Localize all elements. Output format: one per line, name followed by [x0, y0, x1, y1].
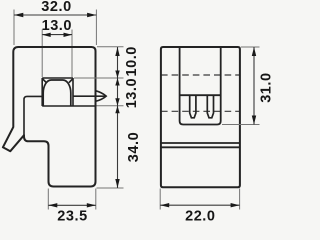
left view: lower body top face [42, 105, 95, 107]
svg-text:31.0: 31.0 [259, 72, 274, 102]
arrow 34.0 down [115, 179, 119, 188]
dimension line 23.5 [48, 204, 96, 206]
left view: extension line 13.0 left [41, 30, 43, 78]
left view: body outline with lever [3, 47, 96, 187]
right view: extension line 22.0 left [159, 189, 161, 210]
dimension line right stack [117, 47, 119, 188]
svg-text:13.0: 13.0 [124, 78, 140, 108]
left view: hinge step line [24, 96, 42, 135]
left view: window left edge [41, 78, 43, 106]
arrow 10.0 down (hourglass at 78) [115, 71, 119, 79]
svg-text:22.0: 22.0 [185, 208, 215, 224]
svg-text:13.0: 13.0 [42, 18, 72, 34]
right view: connector left side [179, 47, 181, 121]
left view: latch beak [96, 91, 107, 102]
right view: connector shelf [180, 94, 221, 96]
dimension line 22.0 [160, 204, 239, 206]
left view: extension line 32.0 right [95, 10, 97, 46]
arrow 23.5 right [87, 203, 96, 207]
right view: connector right side [220, 47, 222, 121]
left view: window right edge [72, 78, 74, 106]
right view: extension line 31.0 bottom [222, 124, 260, 126]
right view: pin 1 [190, 95, 196, 118]
right view: extension line 31.0 top [241, 46, 260, 48]
arrow 13.0 down (hourglass at 105.8) [115, 98, 119, 106]
left view: extension line 13.0 right [71, 30, 73, 78]
left view: split line right to latch tip [73, 95, 106, 97]
svg-text:32.0: 32.0 [41, 0, 71, 15]
right view: connector bottom [180, 121, 221, 125]
arrow 31.0 down [252, 116, 256, 125]
arrow 22.0 left [160, 203, 169, 207]
right view: lower groove line 2 [161, 146, 240, 148]
left view: extension line 23.5 right [95, 189, 97, 210]
left view: cable dome [43, 80, 71, 106]
arrow 22.0 right [231, 203, 240, 207]
right view: extension line 22.0 right [239, 189, 241, 210]
arrow 23.5 left [48, 203, 57, 207]
right view: pin 2 [207, 95, 213, 118]
right view: lower groove line 1 [161, 142, 240, 144]
left view: extension line 32.0 left [13, 10, 15, 46]
right view: dashed line upper [161, 74, 240, 76]
arrow 13.0 left [42, 33, 51, 37]
arrow 13.0 up (hourglass at 78) [115, 78, 119, 86]
arrow 13.0 right [64, 33, 73, 37]
arrow 34.0 up (hourglass at 105.8) [115, 106, 119, 114]
left view: window top edge [42, 77, 73, 79]
left view: hatch top-right corner [69, 79, 73, 83]
dimension line 32.0 [14, 14, 96, 16]
arrow 31.0 up [252, 47, 256, 56]
svg-text:10.0: 10.0 [124, 46, 140, 76]
right view: outer box [161, 47, 240, 187]
arrow 32.0 right [87, 13, 96, 17]
left view: extension line body bottom (y=188) [97, 187, 124, 189]
dimension line 13.0 top [42, 34, 72, 36]
left view: extension line lower body top (y=105.8) [97, 105, 124, 107]
right view: dashed line lower [161, 110, 240, 112]
dimension line 31.0 [253, 47, 255, 125]
left view: extension line window top (y=78) [74, 77, 124, 79]
svg-text:34.0: 34.0 [126, 132, 142, 162]
left view: extension line 10.0 top (y=47) [97, 46, 124, 48]
arrow 32.0 left [14, 13, 23, 17]
left view: hatch top-left corner [43, 79, 47, 83]
svg-text:23.5: 23.5 [57, 208, 87, 224]
left view: extension line 23.5 left [47, 189, 49, 210]
arrow 10.0 up [115, 47, 119, 56]
